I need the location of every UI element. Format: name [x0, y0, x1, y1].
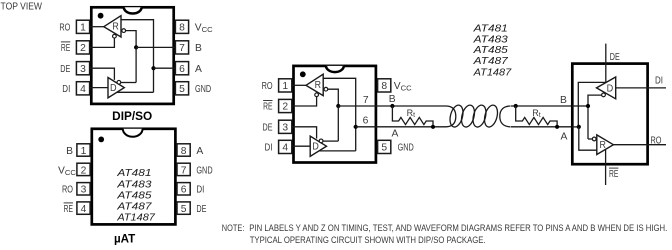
svg-text:VCC: VCC [195, 22, 213, 34]
svg-text:VCC: VCC [394, 81, 412, 93]
wire D output Y to A net [117, 91, 154, 93]
U3 bubble D output Z [319, 139, 323, 143]
svg-text:8: 8 [179, 22, 185, 33]
svg-text:PIN LABELS Y AND Z ON TIMING,: PIN LABELS Y AND Z ON TIMING, TEST, AND … [249, 223, 667, 233]
svg-text:D: D [312, 142, 319, 153]
U3 node A junction [354, 125, 358, 129]
svg-text:5: 5 [381, 143, 387, 154]
package U3 notch [326, 66, 344, 72]
U4 wire D output Y to A node [578, 82, 605, 127]
U4 driver D [597, 77, 616, 99]
svg-text:B: B [195, 43, 202, 54]
U3 pin 5 box [378, 140, 391, 153]
svg-text:RO: RO [62, 185, 73, 196]
U3 driver D [310, 136, 326, 156]
wire bus line B left segment [377, 105, 447, 107]
pin 2 box [76, 41, 89, 54]
wire bus line B right segment [511, 105, 573, 107]
U3 wire D bubble to B net [323, 140, 338, 142]
svg-text:3: 3 [81, 185, 87, 196]
svg-text:RO: RO [651, 135, 662, 146]
U3 bubble R enable [315, 93, 319, 97]
twisted pair loop 4 [482, 104, 499, 129]
svg-text:RE: RE [263, 102, 272, 113]
svg-text:5: 5 [179, 84, 185, 95]
node A junction [151, 66, 155, 70]
U3 pin 4 box [279, 140, 292, 153]
twisted pair loop 2 [459, 104, 476, 129]
U4 wire D bubble to B node [588, 95, 602, 139]
wire DI input [90, 87, 108, 89]
package U3 DIP body [294, 66, 376, 163]
svg-text:GND: GND [196, 165, 212, 176]
svg-text:DE: DE [60, 64, 70, 75]
wire node B down to driver [135, 47, 137, 82]
uAT pin 7 box [177, 163, 190, 175]
svg-text:RE: RE [64, 204, 73, 215]
svg-text:A: A [561, 131, 568, 142]
uAT pin 2 box [77, 163, 90, 175]
svg-text:Rt: Rt [407, 108, 416, 119]
U3 wire node B to pin 7 [338, 105, 377, 107]
U3 wire node B down to driver [337, 106, 339, 141]
uAT pin 1 box [77, 144, 90, 156]
svg-text:RE: RE [609, 169, 618, 180]
svg-text:7: 7 [181, 165, 187, 176]
package U1 pin-1 index dot [98, 13, 104, 19]
svg-text:Rt: Rt [532, 108, 541, 119]
uAT pin 8 box [177, 144, 190, 156]
svg-text:DI: DI [196, 185, 204, 196]
svg-text:VCC: VCC [58, 165, 76, 177]
resistor Rt1 [392, 106, 433, 127]
svg-text:DI: DI [265, 143, 273, 154]
U3 wire DI input [292, 145, 310, 147]
svg-text:RO: RO [59, 22, 70, 33]
node bus B at Rt1 [390, 104, 394, 108]
U3 pin 2 box [279, 99, 292, 112]
wire R input A [121, 20, 154, 93]
package U3 pin-1 index dot [300, 71, 306, 77]
U4 bubble D output Z [602, 93, 606, 97]
U4 wire B entry [572, 105, 588, 107]
package U1 DIP/SO body [91, 7, 173, 104]
svg-text:A: A [195, 64, 202, 75]
package U2 notch [123, 129, 143, 137]
node B junction [134, 45, 138, 49]
U4 wire A entry [572, 126, 579, 128]
svg-text:2: 2 [81, 165, 87, 176]
U3 wire D output Y to A net [319, 150, 356, 152]
U4 bubble R input B [592, 137, 596, 141]
uAT pin 5 box [177, 202, 190, 214]
svg-text:DI: DI [655, 75, 663, 86]
uAT pin 4 box [77, 202, 90, 214]
wire node B to pin 7 [136, 46, 175, 48]
twisted pair right cap [500, 106, 510, 127]
pin 1 box [76, 20, 89, 33]
resistor Rt2 [516, 106, 557, 127]
U3 node B junction [336, 104, 340, 108]
svg-text:5: 5 [181, 204, 187, 215]
svg-text:TYPICAL OPERATING CIRCUIT SHOW: TYPICAL OPERATING CIRCUIT SHOWN WITH DIP… [250, 235, 486, 245]
bubble D output Z [117, 80, 121, 84]
pin 4 box [76, 82, 89, 95]
svg-text:A: A [196, 146, 203, 157]
U4 wire A to R input [579, 127, 597, 150]
svg-text:1: 1 [282, 81, 288, 92]
wire bus line A left segment [377, 126, 447, 128]
svg-text:GND: GND [195, 84, 211, 95]
svg-text:6: 6 [179, 64, 185, 75]
pin 7 box [175, 41, 188, 54]
U3 wire DE enable [292, 127, 317, 139]
svg-text:1: 1 [80, 22, 86, 33]
pin 2 label RE overline [61, 41, 70, 43]
U3 bubble R input B [324, 87, 328, 91]
U3 wire R input A [323, 78, 356, 151]
U3 receiver R [306, 74, 323, 95]
svg-text:B: B [66, 146, 73, 157]
svg-text:µAT: µAT [114, 233, 135, 246]
pin 3 box [76, 62, 89, 75]
U4 wire bubble stub [588, 138, 592, 140]
svg-text:4: 4 [81, 204, 87, 215]
svg-text:A: A [392, 129, 399, 140]
svg-text:2: 2 [80, 43, 86, 54]
package U2 pin-1 index dot [98, 137, 104, 143]
pin 6 box [175, 62, 188, 75]
U4 wire DI input [616, 87, 666, 89]
driver D1 [108, 78, 124, 98]
node bus B at Rt2 [514, 104, 518, 108]
twisted pair left cap [447, 106, 456, 127]
node bus A at Rt2 [555, 125, 559, 129]
U4 wire DE [605, 44, 607, 83]
U3 wire RE enable [292, 97, 317, 106]
svg-text:DE: DE [263, 123, 273, 134]
transceiver U4 box [572, 64, 647, 165]
svg-text:D: D [607, 84, 614, 95]
svg-text:DE: DE [196, 204, 206, 215]
svg-text:7: 7 [179, 43, 185, 54]
U4 receiver R [597, 135, 614, 155]
U3 wire node A to pin 6 [356, 126, 377, 128]
svg-text:RE: RE [61, 43, 70, 54]
U4 label RE overline [609, 167, 618, 169]
wire D bubble to B net [121, 82, 136, 84]
wire node A to pin 6 [154, 67, 176, 69]
svg-text:RO: RO [262, 81, 273, 92]
U3 pin 1 box [279, 79, 292, 92]
U4 node A junction [577, 125, 581, 129]
package U1 notch [124, 7, 142, 13]
svg-text:DIP/SO: DIP/SO [112, 110, 152, 123]
svg-text:D: D [110, 83, 117, 94]
svg-text:AT1487: AT1487 [116, 212, 156, 224]
svg-text:3: 3 [282, 123, 288, 134]
pin 5 box [175, 82, 188, 95]
uAT pin 3 box [77, 183, 90, 195]
receiver R1 [104, 16, 121, 37]
svg-text:8: 8 [181, 146, 187, 157]
wire bus line A right segment [511, 126, 573, 128]
svg-text:NOTE:: NOTE: [222, 223, 245, 233]
svg-text:DE: DE [610, 52, 620, 63]
svg-text:DI: DI [62, 84, 70, 95]
svg-text:R: R [112, 22, 118, 33]
svg-text:7: 7 [363, 95, 369, 106]
U3 pin 3 box [279, 120, 292, 133]
svg-text:AT1487: AT1487 [473, 67, 513, 79]
U4 node B junction [586, 104, 590, 108]
U3 pin 2 label RE overline [263, 100, 272, 102]
twisted pair loop 3 [471, 104, 488, 129]
svg-text:6: 6 [181, 185, 187, 196]
U4 wire RE [605, 150, 607, 185]
U3 wire R bubble to B net [328, 89, 339, 106]
uAT pin 6 box [177, 183, 190, 195]
U3 pin 8 box [378, 79, 391, 92]
svg-text:2: 2 [282, 102, 288, 113]
node bus A at Rt1 [431, 125, 435, 129]
uAT pin 4 label RE overline [64, 202, 73, 204]
svg-text:4: 4 [80, 84, 86, 95]
wire R bubble to B net [126, 31, 137, 48]
svg-text:4: 4 [282, 143, 288, 154]
svg-text:6: 6 [363, 116, 369, 127]
svg-text:AT487: AT487 [473, 55, 510, 67]
bubble R input B [122, 29, 126, 33]
wire RO output [90, 26, 104, 28]
U4 wire RO output [613, 144, 666, 146]
package U2 uAT body [92, 129, 176, 225]
svg-text:1: 1 [81, 146, 87, 157]
svg-text:TOP VIEW: TOP VIEW [1, 1, 43, 12]
svg-text:3: 3 [80, 64, 86, 75]
U3 wire RO output [292, 84, 306, 86]
svg-text:B: B [389, 94, 396, 105]
bubble R enable [113, 34, 117, 38]
svg-text:R: R [600, 140, 606, 151]
svg-text:GND: GND [398, 143, 414, 154]
wire RE enable [90, 38, 115, 47]
svg-text:B: B [560, 95, 567, 106]
wire DE enable [90, 68, 115, 80]
pin 8 box [175, 20, 188, 33]
svg-text:8: 8 [381, 81, 387, 92]
svg-text:R: R [315, 80, 321, 91]
twisted pair loop 1 [448, 104, 465, 129]
